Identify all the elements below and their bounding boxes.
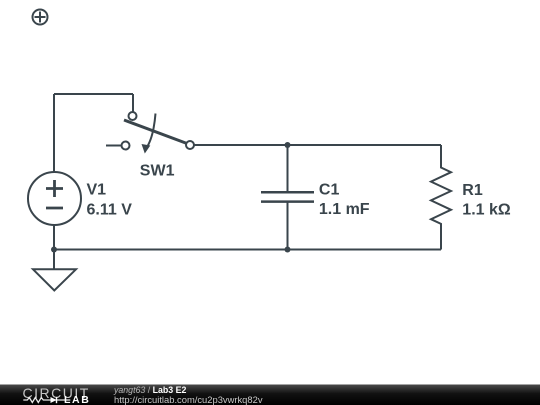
top lead xyxy=(287,145,289,192)
logo diode xyxy=(51,397,57,403)
minus xyxy=(46,207,63,210)
svg-text:V1: V1 xyxy=(87,182,107,199)
actuation arrow xyxy=(146,114,156,149)
bottom lead xyxy=(287,202,289,250)
plates xyxy=(261,192,314,201)
node top xyxy=(285,142,291,148)
node junction at V1 bottom xyxy=(51,247,57,253)
footer bar xyxy=(0,385,540,405)
wire from V1 top to top-left corner xyxy=(53,94,55,172)
wire from switch right to resistor top corner xyxy=(194,144,441,146)
right throw terminal xyxy=(186,141,194,149)
wire down to switch common xyxy=(132,94,134,112)
resistor R1 xyxy=(431,145,511,250)
svg-text:http://circuitlab.com/cu2p3vwr: http://circuitlab.com/cu2p3vwrkq82v xyxy=(114,394,263,405)
svg-text:1.1 mF: 1.1 mF xyxy=(319,201,370,218)
left throw terminal xyxy=(122,142,130,150)
bottom wire xyxy=(54,249,441,251)
svg-text:R1: R1 xyxy=(462,182,483,199)
capacitor C1 xyxy=(261,142,370,253)
svg-text:SW1: SW1 xyxy=(140,163,175,180)
wire stub to left throw xyxy=(106,145,122,147)
wire V1 bottom to ground node xyxy=(53,225,55,250)
svg-text:1.1 kΩ: 1.1 kΩ xyxy=(462,202,511,219)
switch SW1 xyxy=(122,112,195,180)
voltage source V1 xyxy=(28,172,132,225)
svg-text:6.11 V: 6.11 V xyxy=(87,201,133,218)
svg-text:LAB: LAB xyxy=(64,394,90,405)
svg-text:C1: C1 xyxy=(319,182,340,199)
blade xyxy=(124,120,187,144)
cursor marker plus-circle xyxy=(33,10,48,25)
ground xyxy=(33,250,76,291)
wire top horizontal xyxy=(54,93,133,95)
logo zigzag resistor and diode xyxy=(23,398,70,403)
common terminal xyxy=(129,112,137,120)
plus xyxy=(46,180,63,197)
node bottom xyxy=(285,247,291,253)
